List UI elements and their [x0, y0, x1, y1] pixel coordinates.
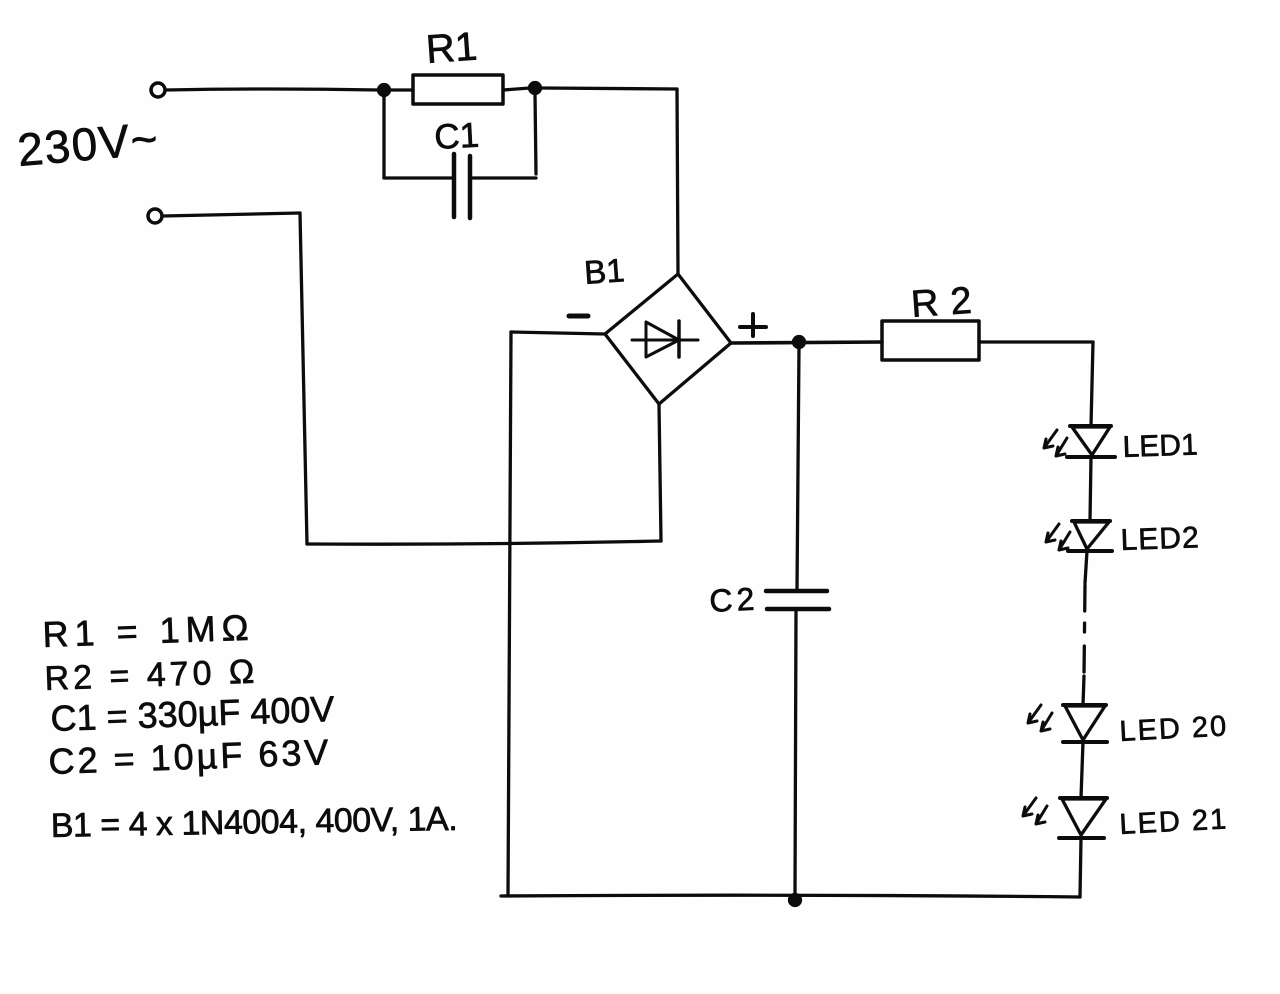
wire dashed to LED20 [1083, 676, 1084, 705]
wire lower horizontal to bridge bottom [307, 541, 661, 544]
minus sign [569, 314, 588, 319]
wire down to bridge top [677, 89, 678, 274]
bridge rectifier B1 diamond [605, 274, 731, 404]
capacitor C2 [766, 591, 829, 609]
wire C1 right horizontal [471, 176, 536, 179]
LED D20 [1063, 705, 1107, 742]
svg-text:LED 20: LED 20 [1119, 710, 1229, 748]
bottom rail wire [501, 895, 1080, 897]
wire down to LED1 [1091, 342, 1093, 426]
wire top input to node A [166, 89, 379, 90]
wire C2 to bottom rail [795, 611, 796, 896]
LED D1 [1067, 426, 1115, 457]
capacitor C1 [454, 154, 470, 218]
wire LED1 to LED2 [1090, 457, 1091, 521]
LED D21 [1059, 798, 1107, 838]
LED20 light arrows [1028, 705, 1052, 731]
svg-text:C2: C2 [708, 580, 759, 619]
wire bridge plus to R2 [731, 342, 882, 343]
wire bridge minus to left rail [511, 332, 605, 334]
svg-text:C1 = 330µF 400V: C1 = 330µF 400V [50, 688, 335, 739]
wire left rail down [508, 332, 511, 896]
LED2 light arrows [1046, 524, 1070, 550]
LED21 light arrows [1023, 798, 1047, 824]
wire node C down to C2 [797, 347, 799, 590]
svg-text:LED2: LED2 [1120, 521, 1200, 557]
LED D2 [1068, 521, 1112, 551]
svg-text:R1: R1 [425, 25, 479, 72]
wire node A to R1 [389, 88, 413, 91]
svg-text:B1 = 4 x 1N4004, 400V, 1A.: B1 = 4 x 1N4004, 400V, 1A. [50, 800, 457, 845]
wire R2 to LED column [979, 340, 1093, 343]
resistor R2 [882, 321, 979, 360]
node B junction dot [530, 83, 541, 94]
wire node B to top-right corner [541, 88, 677, 89]
dashed wire (omitted LEDs) [1084, 585, 1085, 676]
terminal top-left input [151, 83, 165, 97]
svg-text:C2 = 10µF 63V: C2 = 10µF 63V [48, 731, 332, 782]
resistor R1 [413, 75, 503, 104]
wire up to bridge bottom vertex [659, 404, 661, 541]
wire LED2 down solid [1085, 551, 1087, 583]
wire R1 to node B [503, 88, 530, 90]
wire C1 left horizontal [384, 176, 452, 179]
node D junction dot on bottom rail [790, 895, 801, 906]
wire lower input down [300, 213, 307, 544]
svg-text:C1: C1 [433, 116, 480, 157]
wire lower input right [163, 213, 300, 216]
diode symbol inside B1 [632, 321, 698, 357]
wire node A down to C1 [382, 95, 385, 178]
svg-text:B1: B1 [583, 251, 626, 291]
svg-text:R1 = 1MΩ: R1 = 1MΩ [42, 607, 255, 655]
plus sign [740, 314, 766, 336]
wire LED21 to bottom rail [1080, 838, 1081, 897]
LED1 light arrows [1044, 430, 1067, 456]
terminal bottom-left input [148, 209, 162, 223]
svg-text:LED 21: LED 21 [1119, 803, 1229, 841]
svg-text:230V~: 230V~ [15, 112, 161, 176]
svg-text:R2: R2 [910, 279, 985, 326]
wire up to node B [535, 93, 536, 174]
svg-text:LED1: LED1 [1122, 428, 1198, 464]
node A junction dot [379, 85, 390, 96]
wire LED20 to LED21 [1081, 742, 1083, 798]
node C junction dot [794, 337, 805, 348]
